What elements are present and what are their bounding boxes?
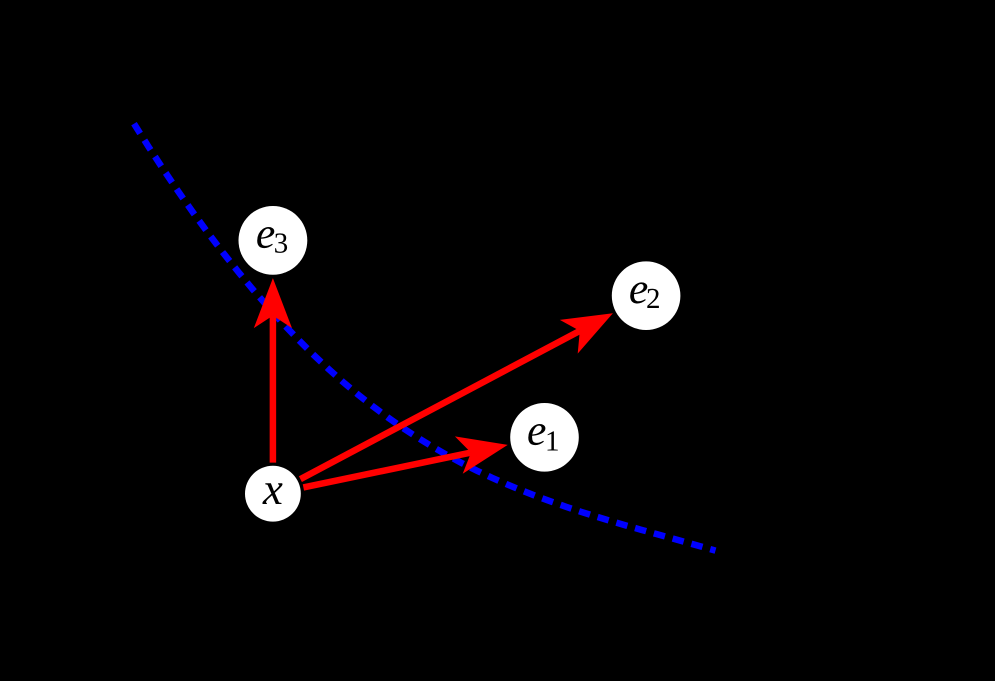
node x circle (245, 466, 301, 522)
blue dashed convex curve (134, 124, 716, 551)
node e3 circle (239, 206, 308, 275)
node e3 label (257, 227, 274, 248)
arrow x -> e3 head (254, 278, 292, 328)
arrow x -> e2 shaft (300, 331, 579, 479)
node e1 circle (510, 403, 579, 472)
arrow x -> e1 shaft (303, 453, 471, 488)
arrow x -> e1 head (455, 436, 508, 473)
node e2 circle (612, 261, 681, 330)
arrow x -> e2 head (560, 313, 613, 353)
arrow x -> e3 shaft (270, 316, 277, 463)
node e1 label (528, 424, 545, 445)
node x label (262, 483, 282, 504)
node e2 label (630, 282, 647, 303)
